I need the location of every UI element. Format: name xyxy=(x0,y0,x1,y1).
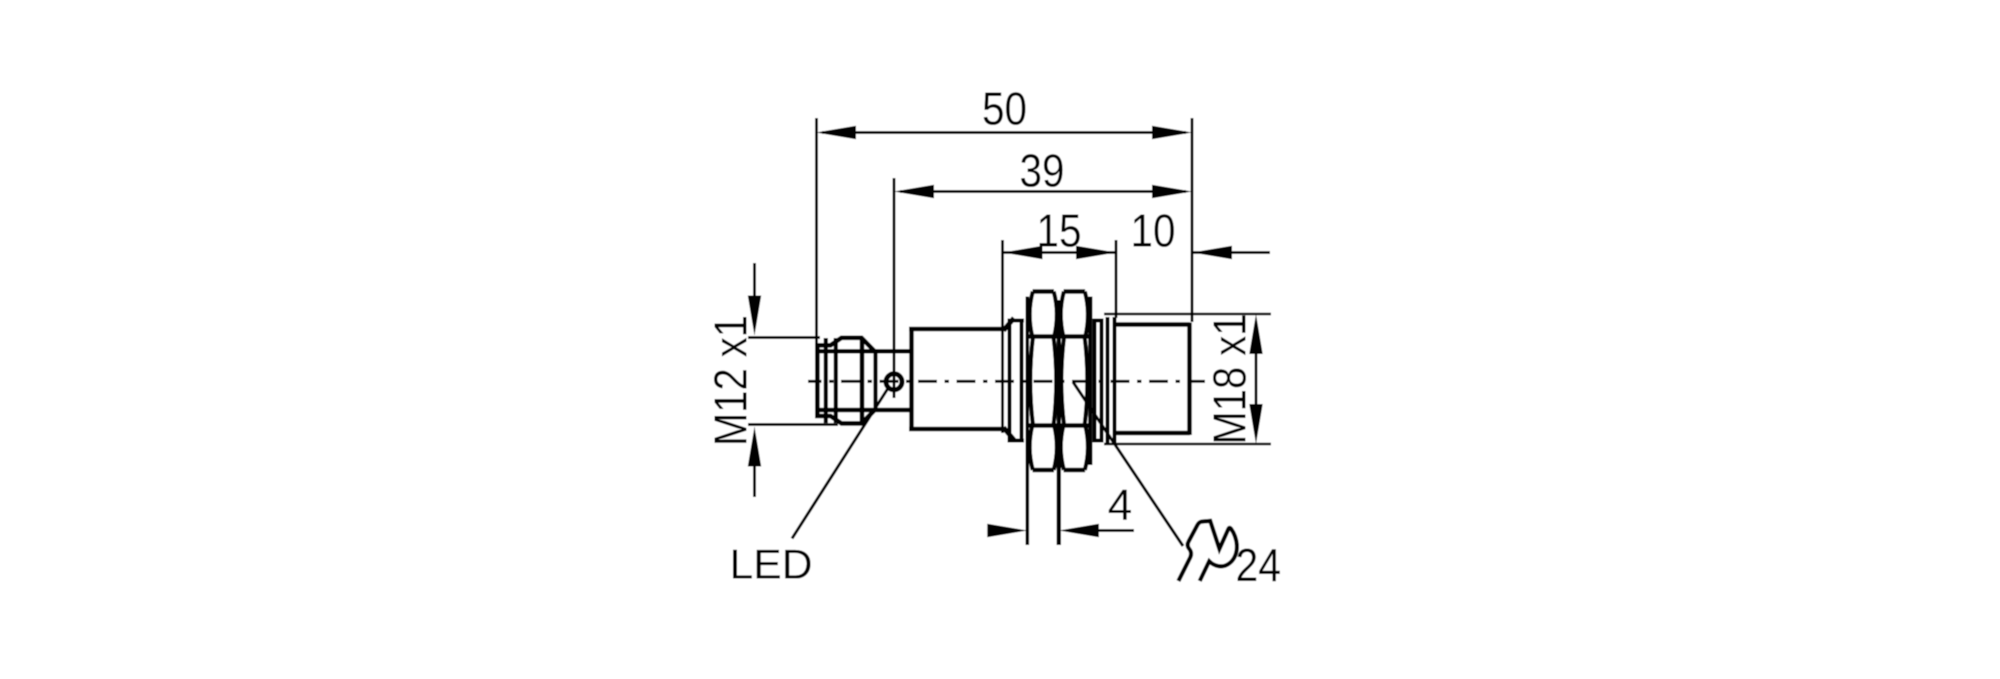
right washer right edge xyxy=(1100,319,1104,443)
sensing face right edge xyxy=(1187,323,1192,436)
connector barrel bottom line xyxy=(817,408,912,412)
connector barrel top line xyxy=(817,349,912,353)
arrowhead M18 bottom (points down) xyxy=(1249,404,1262,444)
facet line upper xyxy=(1026,334,1093,338)
right washer top edge xyxy=(1093,319,1103,323)
left washer bottom edge xyxy=(1008,439,1024,443)
arrowhead 10 right (outside) xyxy=(1192,246,1232,259)
dimension 10 (thread length) xyxy=(1131,205,1271,260)
extension line 15 at body step xyxy=(1001,240,1004,433)
nut2 chamfer arc bottom-right xyxy=(1085,426,1088,471)
right washer left edge xyxy=(1093,319,1097,443)
nut2 chamfer arc top-left xyxy=(1061,292,1064,337)
nut2 waist arc left xyxy=(1061,337,1064,426)
extension line 39 at connector shoulder xyxy=(893,178,896,398)
nut2 right silhouette xyxy=(1088,297,1092,466)
nut2 top edge xyxy=(1064,289,1086,294)
svg-text:M12 x1: M12 x1 xyxy=(705,315,757,446)
connector thread line a xyxy=(824,338,828,423)
connector thread line b xyxy=(834,338,838,423)
left washer left edge xyxy=(1008,319,1012,443)
nut2 bottom edge xyxy=(1064,468,1086,473)
dimension 50 (overall length) xyxy=(816,83,1192,345)
facet line lower xyxy=(1026,423,1093,427)
LED indicator circle xyxy=(886,374,902,390)
arrowhead 39 left xyxy=(894,185,934,198)
arrowhead 15 right xyxy=(1076,246,1116,259)
dimension 39 (housing length) xyxy=(894,145,1192,399)
arrowhead 4 right (outside, points left) xyxy=(1059,524,1099,537)
thread crest / extension line M18 bottom xyxy=(1104,443,1271,446)
nut2 waist arc right xyxy=(1085,337,1088,426)
main housing body xyxy=(909,318,1014,440)
centerline (dash-dot sensor axis) xyxy=(808,380,1205,383)
hex nut 2 xyxy=(1059,292,1091,546)
dimension line 39 xyxy=(900,190,1186,193)
barrel bottom edge xyxy=(1113,431,1190,436)
svg-text:4: 4 xyxy=(1108,481,1132,530)
extension line 15/10 shared at thread start xyxy=(1115,240,1118,318)
arrow tail M12 bottom xyxy=(753,462,756,497)
arrow tail M12 top xyxy=(753,263,756,300)
arrowhead M12 top (points down) xyxy=(748,296,761,336)
extension line M12 top xyxy=(748,336,820,339)
connector collar profile top xyxy=(817,338,874,416)
nut2 chamfer arc bottom-left xyxy=(1061,426,1064,471)
svg-text:LED: LED xyxy=(730,541,813,588)
body bottom edge xyxy=(909,427,1005,432)
thread crest / extension line M18 top xyxy=(1104,313,1271,316)
nut1 left silhouette / extension line for 4 xyxy=(1026,297,1030,546)
M12 connector plug xyxy=(817,338,912,424)
left washer right edge xyxy=(1020,319,1024,443)
hex nut 1 xyxy=(1027,292,1057,546)
right washer xyxy=(1093,319,1103,443)
dimension 15 (nut travel) xyxy=(1003,205,1117,434)
body end chamfer bottom xyxy=(1004,428,1015,441)
arrowhead 15 left xyxy=(1003,246,1043,259)
svg-text:M18 x1: M18 x1 xyxy=(1204,314,1256,445)
arrowhead M12 bottom (points up) xyxy=(748,427,761,467)
connector collar profile bottom xyxy=(817,346,874,424)
wrench leader line from nut xyxy=(1073,382,1183,546)
dimension line 15 xyxy=(1003,251,1117,254)
nut facet lines xyxy=(1026,337,1093,426)
connector thread line d xyxy=(873,349,877,412)
arrowhead 50 right xyxy=(1152,126,1192,139)
body top edge xyxy=(909,327,1005,332)
svg-text:39: 39 xyxy=(1020,145,1065,197)
body end chamfer top xyxy=(1004,318,1015,331)
nut1 chamfer arc bottom-left xyxy=(1030,426,1033,471)
thread start line a xyxy=(1106,317,1110,445)
svg-text:24: 24 xyxy=(1236,539,1282,591)
body left edge xyxy=(909,327,914,431)
dimension tail line 4 right xyxy=(1098,529,1134,532)
thread start line b xyxy=(1113,317,1117,445)
right washer bottom edge xyxy=(1093,439,1103,443)
extension line left end face xyxy=(815,118,818,344)
left washer xyxy=(1008,319,1024,443)
nut2 chamfer arc top-right xyxy=(1085,292,1088,337)
wrench symbol (spanner icon) xyxy=(1178,521,1237,581)
dimension line 50 xyxy=(822,131,1186,134)
dimension line M18 vertical xyxy=(1255,348,1258,410)
threaded barrel M18 xyxy=(1108,317,1191,445)
LED leader line xyxy=(792,388,889,539)
arrowhead M18 top (points up) xyxy=(1249,314,1262,354)
svg-text:10: 10 xyxy=(1131,205,1176,257)
connector thread line c xyxy=(860,338,865,423)
left washer top edge xyxy=(1008,319,1024,323)
nut1 bottom edge xyxy=(1033,468,1055,473)
nut1 waist arc left xyxy=(1030,337,1033,426)
dimension 4 (nut thickness) xyxy=(987,481,1134,537)
dimension tail line 10 xyxy=(1192,251,1270,254)
extension line right sensing face xyxy=(1191,118,1194,322)
svg-text:50: 50 xyxy=(982,83,1027,135)
nut1 waist arc right xyxy=(1054,337,1057,426)
nut1 top edge xyxy=(1033,289,1055,294)
nut1 chamfer arc bottom-right xyxy=(1054,426,1057,471)
arrowhead 39 right xyxy=(1152,185,1192,198)
svg-text:15: 15 xyxy=(1037,205,1082,257)
shared nut edge / extension line for 4 xyxy=(1057,300,1061,545)
nut1 chamfer arc top-right xyxy=(1054,292,1057,337)
arrowhead 50 left xyxy=(816,126,856,139)
arrowhead 4 left (outside, points right) xyxy=(987,524,1027,537)
extension line M12 bottom xyxy=(748,423,838,426)
dimension M12 x1 (connector thread) xyxy=(705,263,839,497)
barrel top edge xyxy=(1113,322,1190,327)
nut1 chamfer arc top-left xyxy=(1030,292,1033,337)
dimension M18 x1 (mounting thread) xyxy=(1104,314,1271,445)
